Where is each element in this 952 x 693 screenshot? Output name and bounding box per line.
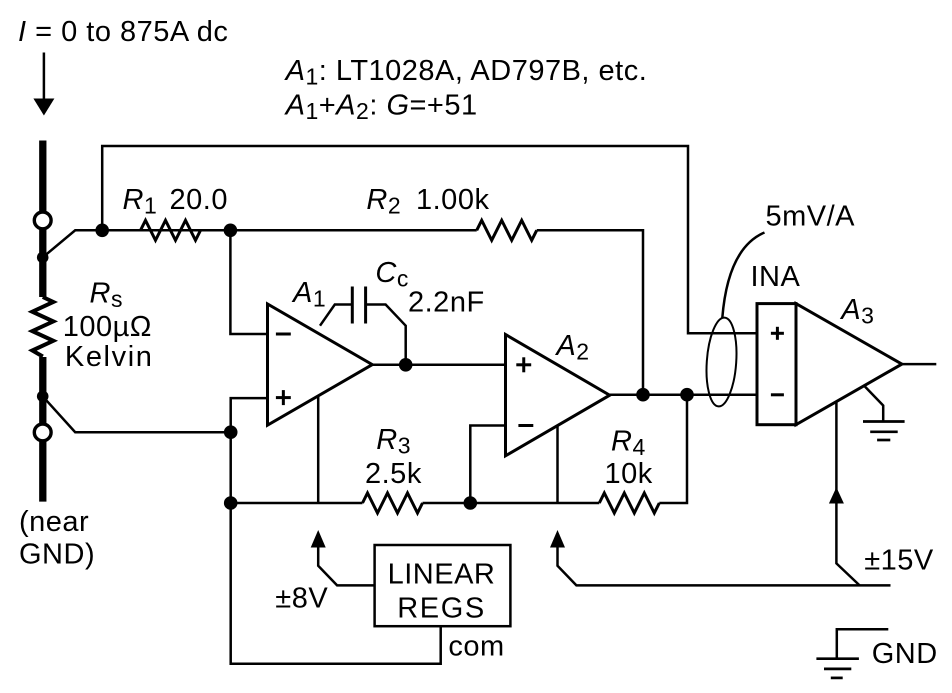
svg-text:LINEAR: LINEAR [388, 559, 496, 591]
svg-text:2.5k: 2.5k [365, 458, 422, 490]
svg-text:20.0: 20.0 [170, 184, 228, 216]
svg-text:I = 0 to 875A dc: I = 0 to 875A dc [18, 16, 228, 48]
svg-text:10k: 10k [605, 458, 653, 490]
svg-text:5mV/A: 5mV/A [766, 201, 856, 233]
svg-text:±8V: ±8V [275, 583, 328, 615]
svg-text:1.00k: 1.00k [416, 184, 489, 216]
svg-text:100µΩ: 100µΩ [63, 311, 152, 343]
svg-text:REGS: REGS [397, 593, 486, 625]
svg-text:com: com [448, 631, 504, 663]
svg-text:(near: (near [19, 506, 89, 538]
svg-text:Kelvin: Kelvin [65, 341, 154, 373]
svg-text:GND): GND) [19, 539, 95, 571]
svg-text:A1: LT1028A, AD797B, etc.: A1: LT1028A, AD797B, etc. [284, 55, 648, 90]
svg-text:±15V: ±15V [864, 545, 934, 577]
svg-text:INA: INA [751, 261, 801, 293]
svg-text:2.2nF: 2.2nF [408, 287, 485, 319]
svg-text:GND: GND [872, 638, 938, 670]
